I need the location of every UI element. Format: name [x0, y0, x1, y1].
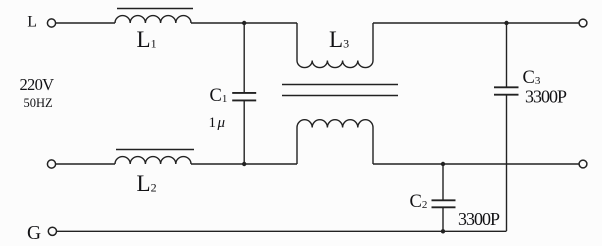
common-mode choke L3 bottom winding [297, 120, 373, 164]
wire top rail L3 to C3 node [373, 22, 507, 24]
wire middle rail to L3 [244, 163, 297, 165]
wire middle rail L3 to C2 node [373, 163, 443, 165]
wire top rail to C1 node [191, 22, 244, 24]
svg-text:G: G [27, 223, 41, 244]
svg-text:L: L [27, 14, 37, 31]
L3 core line upper [282, 84, 398, 86]
wire middle rail to right terminal [443, 163, 579, 165]
svg-text:50HZ: 50HZ [24, 96, 53, 110]
node C2 bottom [441, 229, 445, 233]
wire top rail to right terminal [507, 22, 580, 24]
svg-text:3300P: 3300P [525, 87, 567, 107]
inductor L1 [115, 9, 193, 24]
common-mode choke L3 top winding [297, 23, 373, 68]
node C1 top [242, 21, 246, 25]
svg-text:1μ: 1μ [209, 115, 226, 131]
node C1 bottom [242, 162, 246, 166]
capacitor C1 [232, 23, 256, 164]
wire middle rail left [56, 163, 115, 165]
wire top rail left [56, 22, 115, 24]
wire middle rail to C1 node [191, 163, 244, 165]
terminal G [48, 227, 56, 235]
L3 core line lower [282, 95, 398, 97]
terminal top right [579, 19, 587, 27]
svg-text:220V: 220V [20, 75, 55, 94]
inductor L2 [115, 150, 194, 165]
wire ground rail [57, 230, 507, 232]
terminal L [47, 19, 55, 27]
terminal middle left [47, 160, 55, 168]
svg-text:3300P: 3300P [458, 209, 500, 229]
node C3 top [504, 21, 508, 25]
wire top rail to L3 [244, 22, 297, 24]
capacitor C2 [432, 164, 456, 231]
node C2 top [441, 162, 445, 166]
terminal middle right [579, 160, 587, 168]
capacitor C3 [494, 23, 519, 231]
